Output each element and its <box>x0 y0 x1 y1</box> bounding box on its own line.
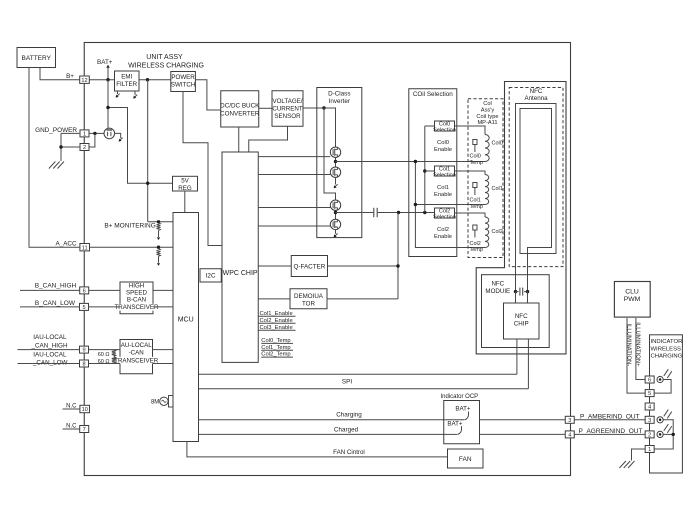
svg-text:4: 4 <box>568 433 571 439</box>
svg-text:7: 7 <box>83 427 86 433</box>
svg-text:5: 5 <box>648 391 651 397</box>
svg-text:Enable: Enable <box>434 192 452 198</box>
svg-text:Enable: Enable <box>434 234 452 240</box>
svg-text:Selection: Selection <box>433 128 456 134</box>
svg-text:BAT+: BAT+ <box>447 420 463 427</box>
svg-text:Charging: Charging <box>336 412 362 419</box>
svg-text:Enable: Enable <box>434 147 452 153</box>
svg-text:B+ MONITERING: B+ MONITERING <box>104 223 155 230</box>
svg-text:A_ACC: A_ACC <box>56 241 77 248</box>
svg-text:11: 11 <box>82 245 88 251</box>
svg-text:B_CAN_HIGH: B_CAN_HIGH <box>35 283 77 290</box>
svg-text:WIRELESS: WIRELESS <box>651 346 682 352</box>
svg-text:9: 9 <box>82 348 85 354</box>
svg-text:MCU: MCU <box>178 317 194 324</box>
svg-text:DEMOIUA: DEMOIUA <box>294 293 324 300</box>
svg-text:GND_POWER: GND_POWER <box>35 127 77 134</box>
svg-text:EMI: EMI <box>121 74 132 81</box>
svg-text:8M: 8M <box>151 400 159 406</box>
svg-text:Charged: Charged <box>334 426 359 433</box>
svg-text:2: 2 <box>83 145 86 151</box>
svg-text:Selection: Selection <box>433 173 456 179</box>
svg-text:Col1: Col1 <box>437 185 449 191</box>
svg-text:Col1: Col1 <box>470 198 481 204</box>
svg-text:UNIT ASSY: UNIT ASSY <box>146 54 183 61</box>
svg-text:VOLTAGE/: VOLTAGE/ <box>272 98 302 105</box>
svg-text:FAN: FAN <box>459 456 472 463</box>
svg-text:Col2: Col2 <box>437 227 449 233</box>
svg-text:4: 4 <box>648 405 651 411</box>
svg-text:5: 5 <box>82 305 85 311</box>
svg-text:TRANSCEIVER: TRANSCEIVER <box>114 357 159 364</box>
svg-text:DC/DC BUCK: DC/DC BUCK <box>220 102 260 109</box>
svg-text:B_CAN_LOW: B_CAN_LOW <box>35 300 76 307</box>
svg-text:IAU-LOCAL: IAU-LOCAL <box>33 352 67 359</box>
svg-text:HIGH: HIGH <box>129 283 144 290</box>
svg-text:BAT+: BAT+ <box>97 59 113 66</box>
svg-text:3: 3 <box>648 418 651 424</box>
svg-text:Temp: Temp <box>470 204 483 210</box>
svg-text:-CAN: -CAN <box>129 349 144 356</box>
svg-text:POWER: POWER <box>171 74 195 81</box>
svg-text:P_AGREENIND_OUT: P_AGREENIND_OUT <box>579 428 643 435</box>
svg-text:60 Ω: 60 Ω <box>98 352 110 358</box>
svg-text:5V: 5V <box>181 178 189 185</box>
svg-text:8: 8 <box>82 362 85 368</box>
svg-text:BATTERY: BATTERY <box>22 55 52 62</box>
svg-text:Temp: Temp <box>470 160 483 166</box>
svg-text:CHIP: CHIP <box>514 320 529 327</box>
svg-text:2: 2 <box>648 433 651 439</box>
svg-text:Indicator OCP: Indicator OCP <box>441 394 479 400</box>
svg-text:10: 10 <box>82 407 88 413</box>
svg-text:Col2: Col2 <box>470 241 481 247</box>
svg-text:Col1: Col1 <box>492 186 503 192</box>
svg-text:NFC: NFC <box>530 88 543 95</box>
svg-text:NFC: NFC <box>491 280 504 287</box>
svg-text:Temp: Temp <box>470 247 483 253</box>
svg-text:Selection: Selection <box>433 215 456 221</box>
svg-text:IAU-LOCAL: IAU-LOCAL <box>33 334 67 341</box>
svg-text:WIRELESS CHARGING: WIRELESS CHARGING <box>128 62 204 69</box>
svg-text:Col2: Col2 <box>492 229 503 235</box>
svg-text:COil Selection: COil Selection <box>413 91 453 98</box>
svg-text:PWM: PWM <box>624 296 641 303</box>
svg-text:Col0: Col0 <box>492 141 503 147</box>
svg-text:P_AMBERIND_OUT: P_AMBERIND_OUT <box>580 413 640 420</box>
svg-text:B-CAN: B-CAN <box>127 297 146 304</box>
svg-text:I2C: I2C <box>206 273 216 280</box>
svg-text:Col0: Col0 <box>437 140 449 146</box>
svg-text:_CAN_HIGH: _CAN_HIGH <box>30 342 67 349</box>
svg-text:SENSOR: SENSOR <box>274 113 301 120</box>
svg-text:_CAN_LOW: _CAN_LOW <box>32 359 68 366</box>
svg-text:Col: Col <box>483 101 492 107</box>
svg-text:MP-A11: MP-A11 <box>477 120 497 126</box>
svg-text:6: 6 <box>648 378 651 384</box>
svg-text:MODUIE: MODUIE <box>485 288 510 295</box>
svg-text:REG: REG <box>178 185 192 192</box>
svg-text:Q-FACTER: Q-FACTER <box>293 263 325 270</box>
svg-text:AU-LOCAL: AU-LOCAL <box>121 342 153 349</box>
svg-text:Coil type: Coil type <box>476 114 498 120</box>
svg-text:B+: B+ <box>66 73 74 80</box>
svg-text:D-Class: D-Class <box>328 90 350 97</box>
svg-text:Inverter: Inverter <box>329 98 350 105</box>
svg-text:Col0: Col0 <box>470 154 481 160</box>
svg-text:3: 3 <box>568 418 571 424</box>
svg-text:SPEED: SPEED <box>126 290 148 297</box>
svg-text:1: 1 <box>648 447 651 453</box>
svg-text:CONVERTER: CONVERTER <box>220 110 260 117</box>
svg-text:6: 6 <box>83 289 86 295</box>
svg-text:FILTER: FILTER <box>116 81 137 88</box>
svg-text:CLU: CLU <box>625 289 639 296</box>
svg-text:1: 1 <box>83 132 86 138</box>
svg-text:TRANSCEIVER: TRANSCEIVER <box>114 304 159 311</box>
svg-text:TOR: TOR <box>302 300 315 307</box>
svg-text:ILLUMINATION-: ILLUMINATION- <box>625 324 631 367</box>
svg-text:SWITCH: SWITCH <box>171 82 195 89</box>
svg-text:CURRENT: CURRENT <box>272 105 302 112</box>
svg-text:WPC CHIP: WPC CHIP <box>223 270 258 277</box>
svg-text:60 Ω: 60 Ω <box>98 359 110 365</box>
svg-text:INDICATOR: INDICATOR <box>651 339 683 345</box>
svg-text:NFC: NFC <box>515 313 528 320</box>
svg-text:ILLUMINATION+: ILLUMINATION+ <box>635 322 641 367</box>
svg-text:CHARGING: CHARGING <box>651 354 683 360</box>
svg-text:12: 12 <box>81 78 87 84</box>
svg-text:SPI: SPI <box>342 379 352 386</box>
svg-text:Ass'y: Ass'y <box>481 108 495 114</box>
svg-text:FAN Cintrol: FAN Cintrol <box>333 449 365 456</box>
svg-text:Antenna: Antenna <box>524 95 548 102</box>
